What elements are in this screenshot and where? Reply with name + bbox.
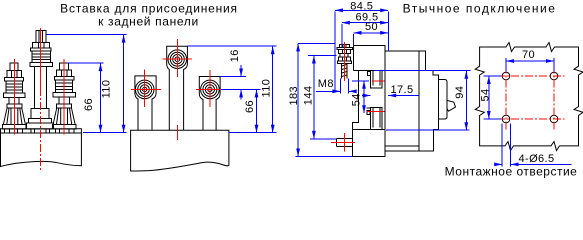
- crosshair terminal pin view3: [331, 133, 355, 152]
- stud middle view1 (tall M8): [30, 31, 52, 109]
- svg-text:110: 110: [101, 80, 113, 99]
- svg-text:54: 54: [350, 93, 362, 106]
- svg-text:70: 70: [522, 49, 535, 61]
- contact post lower view3: [367, 107, 383, 129]
- red contact mark upper view3: [372, 80, 384, 82]
- dimension 110 view2: [187, 46, 276, 133]
- svg-text:50: 50: [365, 21, 378, 33]
- svg-text:110: 110: [261, 79, 273, 98]
- hole top-right: [550, 72, 558, 80]
- centerline stud view3: [343, 42, 345, 81]
- boss middle view1: [27, 108, 54, 128]
- hole bottom-left: [502, 115, 510, 123]
- dimension 17.5 view3: [362, 84, 419, 96]
- svg-text:54: 54: [479, 88, 491, 101]
- crosshair terminal right view2: [196, 70, 226, 107]
- svg-text:Втычное подключение: Втычное подключение: [403, 1, 557, 15]
- svg-text:16: 16: [229, 49, 241, 62]
- boss right view1: [52, 104, 76, 129]
- crosshair terminal left view2: [131, 70, 161, 108]
- centerline vertical left holes: [505, 66, 507, 130]
- svg-text:к задней панели: к задней панели: [98, 14, 199, 28]
- dimension 70 view4: [506, 49, 554, 72]
- hole top-left: [502, 72, 510, 80]
- svg-text:4-Ø6.5: 4-Ø6.5: [519, 153, 555, 165]
- svg-text:94: 94: [454, 86, 466, 99]
- svg-text:17.5: 17.5: [391, 84, 414, 96]
- latch element right view3: [439, 80, 456, 120]
- dimension 50 view3: [354, 21, 389, 45]
- hole bottom-right: [550, 115, 558, 123]
- svg-text:144: 144: [303, 86, 315, 106]
- terminal pin lower-left view3: [336, 139, 352, 147]
- body block view1: [1, 129, 82, 167]
- stud left view1: [4, 63, 25, 104]
- dimension 4-Ø6.5: [495, 124, 572, 167]
- dimension 144 view3: [303, 56, 337, 139]
- panel outline with break marks: [475, 43, 583, 151]
- dimension 16 view2: [220, 49, 260, 99]
- dimension 84.5 view3: [335, 0, 389, 91]
- terminal left view2: [135, 76, 156, 130]
- dimension 69.5 view3: [342, 11, 388, 47]
- stud right view1: [53, 63, 75, 104]
- main outline view3: [353, 45, 439, 156]
- svg-text:Монтажное отверстие: Монтажное отверстие: [445, 165, 578, 179]
- dimension 66 view1: [68, 63, 104, 133]
- svg-text:66: 66: [83, 98, 95, 111]
- centerline stud middle view1: [40, 28, 42, 88]
- stud assembly view3: [337, 44, 353, 78]
- centerline stud right view1: [63, 59, 65, 135]
- svg-text:66: 66: [244, 100, 256, 113]
- body block view2: [131, 130, 229, 171]
- red contact mark lower view3: [367, 110, 385, 112]
- dimension 54 view3: [350, 81, 369, 113]
- centerline horizontal bottom holes: [497, 118, 565, 120]
- dimension 94 view3: [374, 70, 471, 130]
- dimension 110 view1: [46, 35, 126, 133]
- terminal right view2: [199, 77, 220, 131]
- dimension 66 view2: [244, 89, 257, 132]
- title: Вставка для присоединения к задней панели: [60, 2, 238, 29]
- terminal middle view2: [167, 46, 188, 130]
- dimension 54 view4: [479, 76, 501, 119]
- svg-text:М8: М8: [318, 78, 334, 90]
- svg-text:183: 183: [288, 86, 300, 106]
- contact post upper view3: [358, 70, 382, 88]
- boss left view1: [3, 104, 27, 129]
- dimension 183 view3: [288, 43, 353, 156]
- centerline stud left view1: [13, 59, 15, 135]
- centerline vertical right holes: [553, 66, 555, 130]
- dimension M8 view3: [316, 78, 354, 94]
- centerline horizontal top holes: [497, 75, 565, 77]
- crosshair terminal middle view2: [163, 39, 192, 140]
